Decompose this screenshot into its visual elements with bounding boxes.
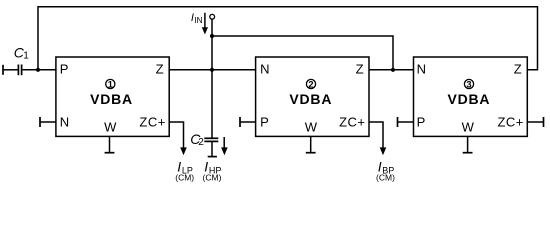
svg-text:1: 1	[23, 50, 29, 61]
svg-text:Z: Z	[156, 62, 164, 77]
svg-text:(CM): (CM)	[175, 173, 194, 183]
svg-text:N: N	[260, 62, 269, 77]
svg-text:N: N	[60, 114, 69, 129]
svg-text:W: W	[305, 120, 318, 135]
svg-text:ZC+: ZC+	[339, 114, 365, 129]
svg-text:P: P	[60, 62, 69, 77]
svg-text:Z: Z	[356, 62, 364, 77]
svg-text:ZC+: ZC+	[139, 114, 165, 129]
svg-text:VDBA: VDBA	[289, 91, 332, 107]
svg-text:IN: IN	[194, 16, 202, 25]
svg-text:Z: Z	[514, 62, 522, 77]
svg-text:3: 3	[466, 79, 471, 89]
svg-text:(CM): (CM)	[203, 173, 222, 183]
svg-text:2: 2	[198, 137, 204, 148]
svg-text:(CM): (CM)	[376, 173, 395, 183]
svg-text:VDBA: VDBA	[90, 91, 133, 107]
svg-text:1: 1	[108, 79, 113, 89]
svg-text:P: P	[417, 114, 426, 129]
svg-text:ZC+: ZC+	[497, 114, 523, 129]
svg-text:N: N	[417, 62, 426, 77]
svg-text:W: W	[462, 120, 475, 135]
svg-text:2: 2	[308, 79, 313, 89]
svg-text:W: W	[104, 120, 117, 135]
svg-text:P: P	[260, 114, 269, 129]
svg-text:VDBA: VDBA	[447, 91, 490, 107]
